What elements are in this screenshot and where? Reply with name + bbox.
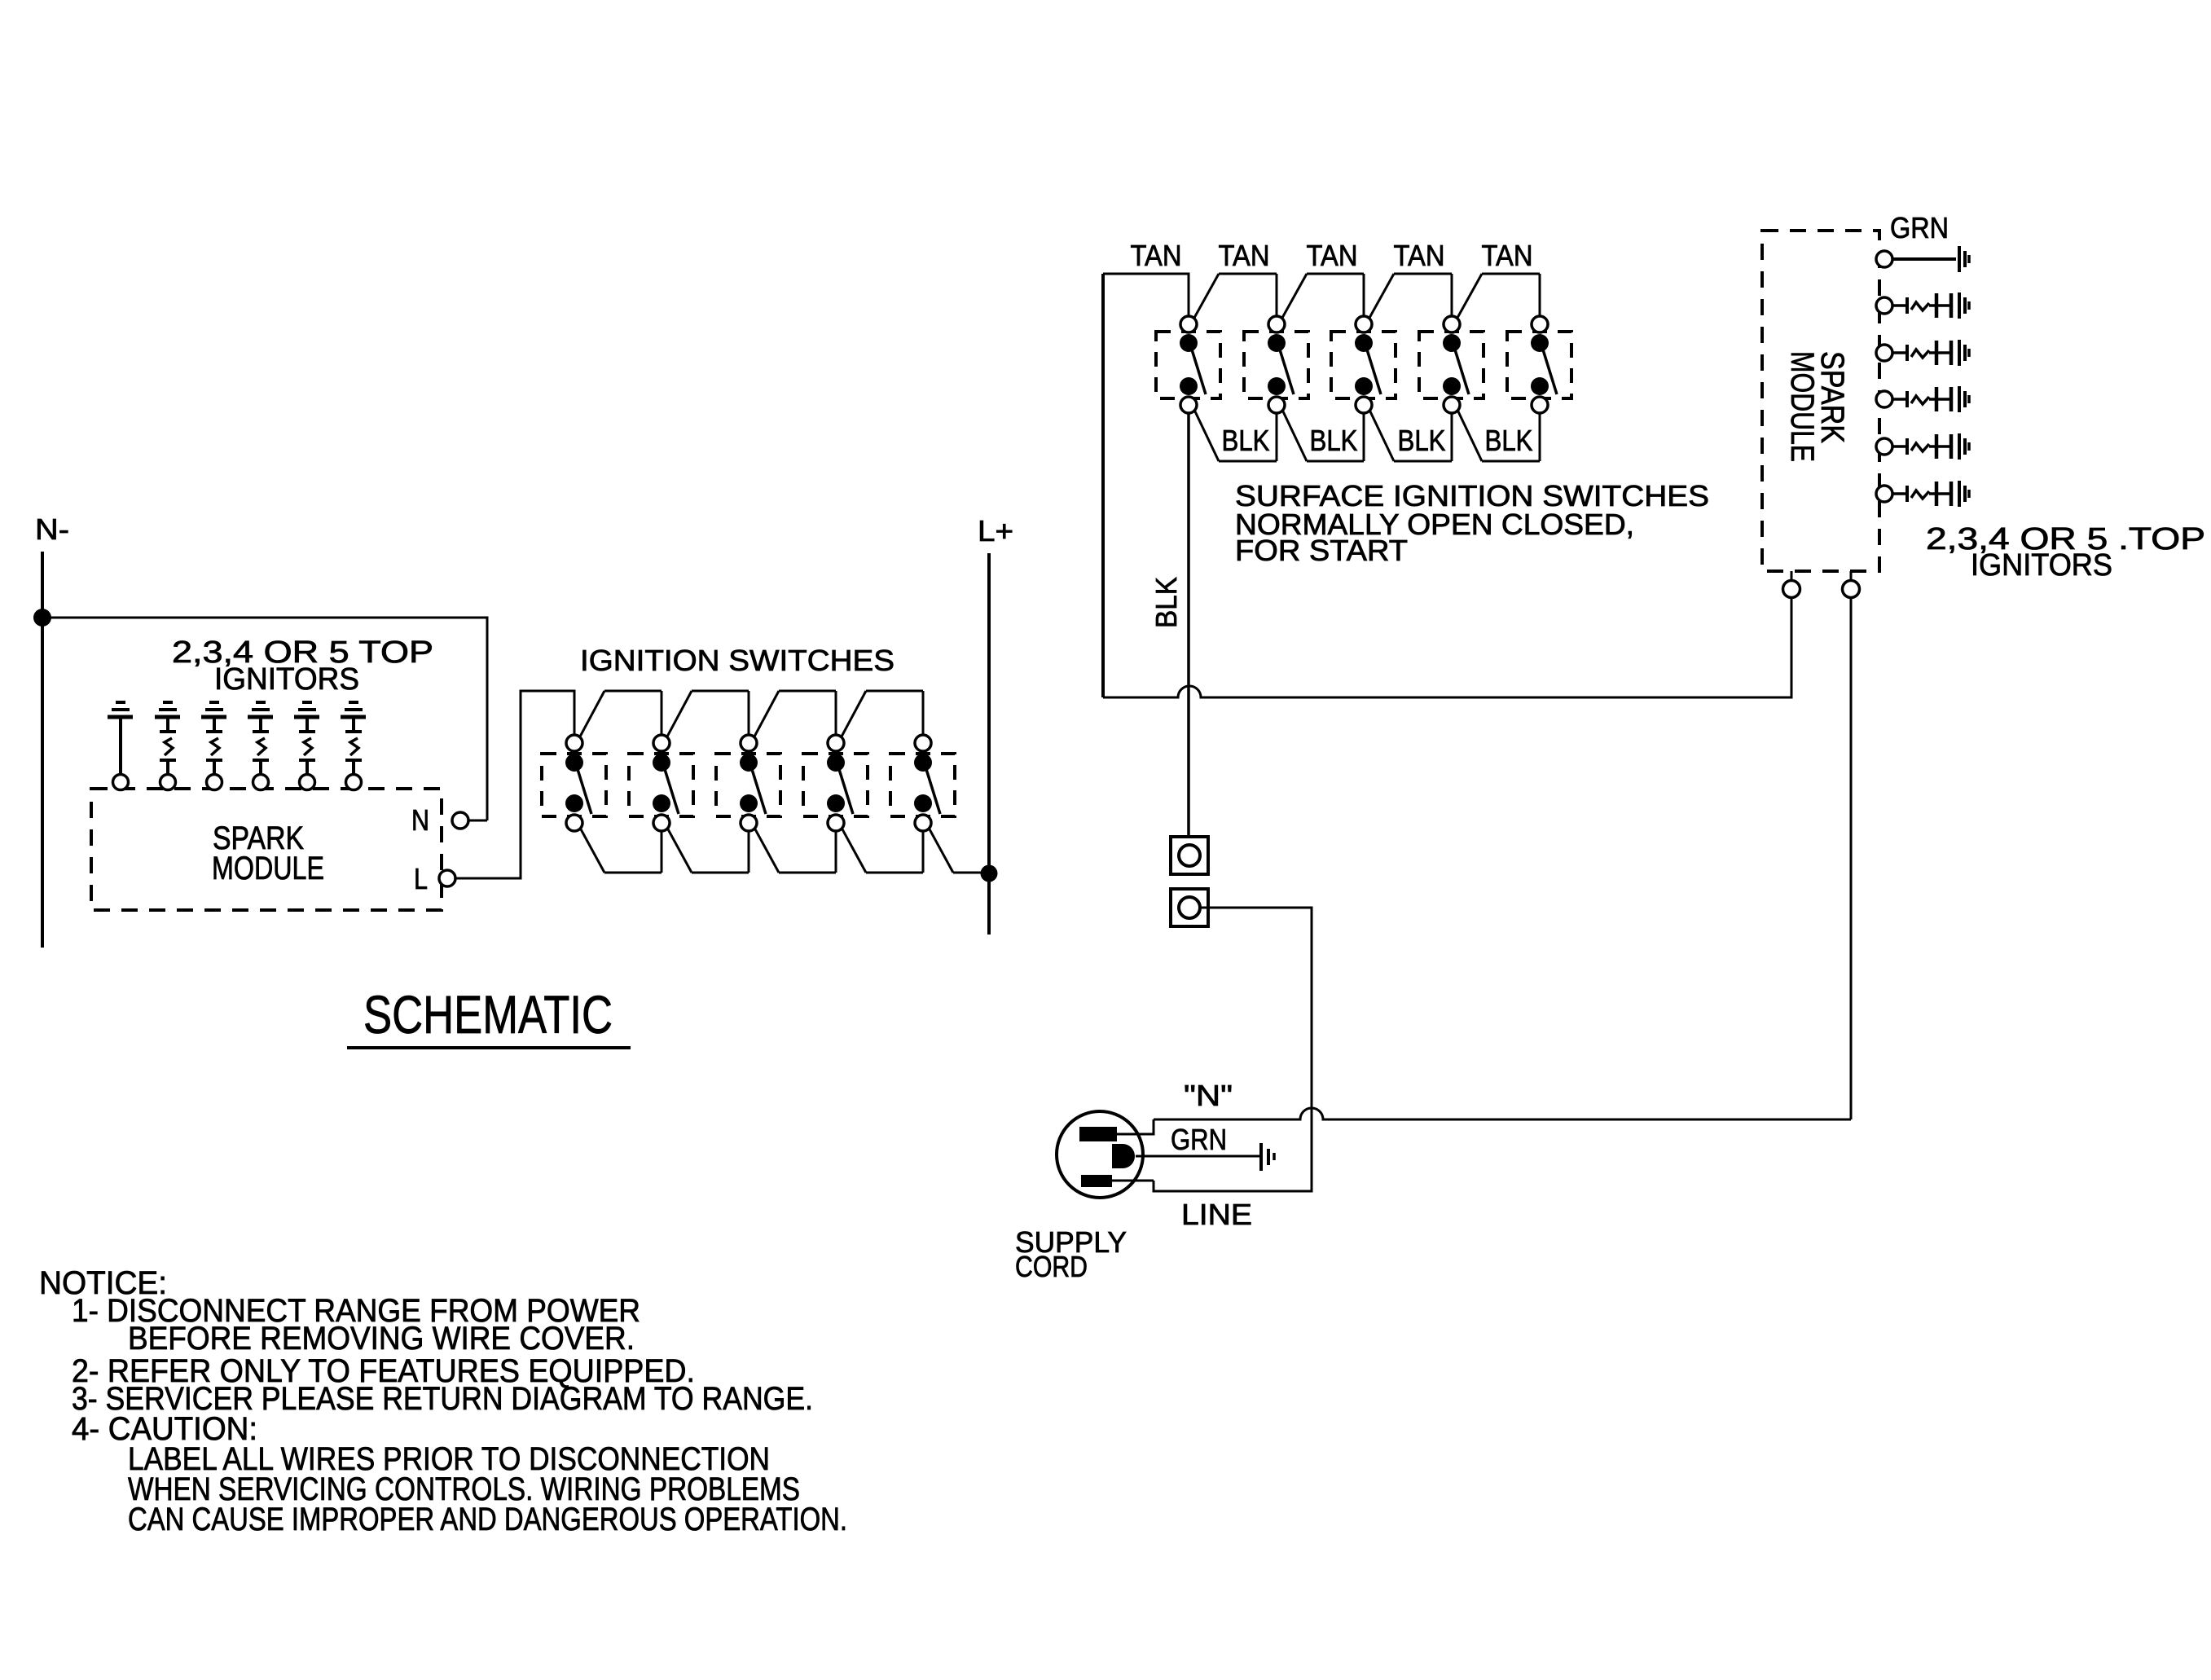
ignitor E2 (top ignitor) <box>155 702 180 790</box>
svg-text:GRN: GRN <box>1890 211 1949 244</box>
svg-text:CAN CAUSE IMPROPER AND DANGERO: CAN CAUSE IMPROPER AND DANGEROUS OPERATI… <box>128 1502 847 1537</box>
svg-text:N-: N- <box>35 512 69 546</box>
wire from L terminal to switch chain feed <box>455 691 574 878</box>
junction N- tap <box>33 609 51 627</box>
ignition switch S4 <box>827 691 923 873</box>
wire top rail to surface switch SS1 <box>1103 274 1189 315</box>
surface ignition switch SS1 dashed cell <box>1156 332 1220 398</box>
terminal L of spark module U2 <box>1783 571 1800 598</box>
wire supply N line with hop over LINE box right edge <box>1154 1108 1851 1119</box>
wire prong LINE to box lower edge <box>1112 1180 1154 1182</box>
ignition switch S2 <box>653 691 749 873</box>
ignitor E1 (top ignitor) <box>108 702 133 790</box>
wire loop bottom: horizontal to right spark module L, hops over BLK wire <box>1103 598 1791 697</box>
wire prong N to LINE box <box>1117 1119 1154 1134</box>
wire N- vertical bus <box>41 552 44 948</box>
svg-text:BLK: BLK <box>1149 577 1183 628</box>
ignition switch S1 dashed cell <box>542 754 606 816</box>
ground symbol (supply cord GRN) <box>1261 1143 1274 1171</box>
svg-text:TAN: TAN <box>1307 239 1358 272</box>
terminal N of spark module U2 <box>1843 571 1860 598</box>
ignitor E5 (top ignitor) <box>294 702 319 790</box>
ignitor E6 (top ignitor) <box>341 702 366 790</box>
svg-text:GRN: GRN <box>1171 1123 1227 1156</box>
svg-text:FOR START: FOR START <box>1235 534 1408 567</box>
connector P1 (plug half) <box>1171 837 1208 874</box>
ignitor E3 (top ignitor) <box>201 702 226 790</box>
ignition switch S5 dashed cell <box>890 754 955 816</box>
svg-text:TAN: TAN <box>1482 239 1533 272</box>
ignition switch S4 dashed cell <box>803 754 868 816</box>
svg-text:IGNITORS: IGNITORS <box>214 662 359 697</box>
terminal L of spark module U1 <box>439 870 455 886</box>
junction L+ with switch chain <box>981 865 998 882</box>
svg-text:IGNITION SWITCHES: IGNITION SWITCHES <box>580 644 895 677</box>
svg-text:BLK: BLK <box>1310 424 1358 457</box>
svg-text:TAN: TAN <box>1131 239 1182 272</box>
svg-text:SCHEMATIC: SCHEMATIC <box>363 984 613 1045</box>
wire N- tap horizontal to spark module N <box>42 617 487 619</box>
svg-text:BEFORE REMOVING WIRE COVER.: BEFORE REMOVING WIRE COVER. <box>128 1321 635 1357</box>
svg-text:TAN: TAN <box>1219 239 1270 272</box>
surface ignition switch SS4 <box>1443 274 1540 461</box>
notice text block <box>39 1265 847 1537</box>
ignitor E4 (top ignitor) <box>248 702 273 790</box>
spark module U2 dashed enclosure <box>1762 231 1879 571</box>
ignition switch S1 <box>565 691 662 873</box>
surface ignition switch SS5 <box>1531 316 1557 413</box>
connector P2 (receptacle half) <box>1171 889 1208 926</box>
ignition switch S3 <box>740 691 836 873</box>
svg-text:LINE: LINE <box>1181 1198 1252 1231</box>
terminal N of spark module U1 <box>452 812 468 829</box>
svg-text:IGNITORS: IGNITORS <box>1971 548 2112 583</box>
wire feed: left vertical from spark module loop <box>1101 274 1105 697</box>
plug prong N (upper blade) <box>1079 1127 1117 1141</box>
plug prong GRN (D-shaped ground pin) <box>1112 1144 1135 1168</box>
ignitor output F1 of spark module U2 (spark gap to ground) <box>1876 292 1969 319</box>
svg-text:"N": "N" <box>1184 1079 1233 1112</box>
ignitor output F4 of spark module U2 (spark gap to ground) <box>1876 433 1969 460</box>
wire GRN from plug to ground <box>1136 1155 1259 1158</box>
ignitor output F2 of spark module U2 (spark gap to ground) <box>1876 340 1969 366</box>
wire L+ vertical bus <box>987 553 991 935</box>
svg-text:BLK: BLK <box>1398 424 1446 457</box>
svg-text:L+: L+ <box>978 514 1013 548</box>
surface ignition switch SS5 dashed cell <box>1507 332 1571 398</box>
surface ignition switch SS4 dashed cell <box>1419 332 1484 398</box>
spark module U1 dashed enclosure <box>91 789 442 910</box>
surface ignition switch SS2 <box>1268 274 1364 461</box>
surface ignition switch SS1 <box>1180 274 1277 461</box>
svg-text:N: N <box>411 803 429 837</box>
svg-text:MODULE: MODULE <box>212 851 324 886</box>
wire vertical down to N terminal <box>486 617 489 821</box>
surface ignition switch SS2 dashed cell <box>1244 332 1308 398</box>
ignition switch S2 dashed cell <box>629 754 693 816</box>
plug prong LINE (lower blade) <box>1081 1175 1112 1187</box>
ignitor output F3 of spark module U2 (spark gap to ground) <box>1876 386 1969 412</box>
svg-text:BLK: BLK <box>1485 424 1533 457</box>
svg-text:BLK: BLK <box>1222 424 1270 457</box>
svg-text:L: L <box>414 862 428 895</box>
surface ignition switch SS3 dashed cell <box>1331 332 1396 398</box>
supply cord plug face <box>1057 1111 1143 1198</box>
surface ignition switch SS3 <box>1355 274 1452 461</box>
svg-text:TAN: TAN <box>1394 239 1445 272</box>
wire BLK vertical from SS1 to connector <box>1187 413 1190 838</box>
wire from connector P2 to LINE box <box>1154 908 1312 1191</box>
ignition switch S5 <box>914 735 989 873</box>
svg-text:MODULE: MODULE <box>1784 351 1820 462</box>
ignitor output F5 of spark module U2 (spark gap to ground) <box>1876 481 1969 507</box>
title underline <box>347 1046 631 1049</box>
wire N terminal stub <box>468 820 487 822</box>
ignition switch S3 dashed cell <box>716 754 780 816</box>
wire from U2 N terminal down to supply N line <box>1850 598 1853 1119</box>
svg-text:CORD: CORD <box>1015 1250 1088 1283</box>
ground lead GRN of spark module U2 <box>1876 246 1969 272</box>
